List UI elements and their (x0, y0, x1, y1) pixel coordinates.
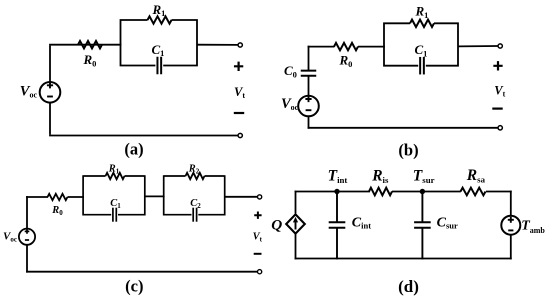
resistor R0 (b) (334, 43, 358, 50)
terminal bottom (c) (258, 270, 262, 274)
terminal top (c) (258, 195, 262, 199)
resistor R0 (a) (78, 41, 102, 48)
resistor R1 (a) (148, 16, 172, 23)
voltage source Voc (b) (298, 96, 319, 117)
wire (b) box to + terminal (458, 45, 498, 47)
capacitor C2 (c) (193, 208, 196, 222)
terminal bottom (a) (238, 133, 242, 137)
resistor Rsa (d) (461, 188, 486, 196)
plus sign (c) (254, 212, 261, 219)
wire (c) bottom rail (26, 271, 257, 273)
svg-text:(b): (b) (398, 140, 418, 159)
svg-text:(d): (d) (398, 277, 419, 296)
current source Q diamond (d) (286, 214, 305, 233)
wire (d) right vertical bottom (510, 235, 512, 260)
resistor R2 (c) (186, 173, 205, 179)
capacitor Cint (d) (336, 192, 338, 223)
wire (d) left vertical top (295, 191, 297, 214)
capacitor C1 (b) (420, 57, 424, 74)
wire (d) R_is to R_sa (392, 191, 461, 193)
resistor R1 (c) (106, 173, 125, 179)
plus sign (b) (493, 61, 502, 70)
voltage source Tamb (d) (501, 216, 520, 235)
node T_int (d) (334, 189, 339, 194)
svg-text:Q: Q (271, 217, 282, 234)
minus sign (a) (234, 112, 244, 114)
plus sign (a) (234, 62, 243, 71)
wire (b) C0 to source (308, 76, 310, 97)
svg-text:(c): (c) (125, 276, 143, 295)
terminal top (b) (498, 44, 502, 48)
wire (c) box1 to box2 (145, 195, 165, 197)
voltage source Voc (a) (40, 82, 61, 103)
capacitor Csur (d) (421, 192, 423, 223)
parallel box frame 1 (c) (83, 175, 145, 215)
capacitor C0 (b) (301, 71, 317, 76)
minus sign (c) (254, 253, 262, 255)
node T_sur (d) (420, 189, 425, 194)
capacitor C1 (c) (113, 208, 116, 222)
voltage source Voc (c) (19, 229, 35, 245)
wire (b) R0 to box (358, 46, 385, 48)
wire (a) bottom rail (49, 135, 238, 137)
wire (d) R_sa to right vertical (486, 191, 512, 193)
terminal top (a) (238, 43, 242, 47)
resistor R1 (b) (410, 20, 434, 27)
svg-text:(a): (a) (124, 139, 143, 158)
terminal bottom (b) (498, 126, 502, 130)
parallel box frame (b) (384, 22, 458, 66)
wire (a) box to + terminal (197, 44, 238, 46)
wire (c) box2 to + terminal (225, 196, 258, 198)
wire (d) bottom rail (295, 258, 512, 260)
capacitor C1 (a) (157, 57, 161, 75)
parallel box frame 2 (c) (164, 175, 225, 215)
wire (b) bottom rail (308, 127, 498, 129)
parallel box frame (a) (121, 19, 198, 66)
minus sign (b) (492, 107, 502, 109)
wire (c) source to top rail (26, 196, 28, 229)
wire (c) R0 to box1 (68, 196, 85, 198)
wire (d) top rail to R_is (295, 191, 370, 193)
resistor Ris (d) (369, 188, 392, 196)
wire (b) top rail left (308, 46, 310, 70)
wire (a) source top to top rail (49, 46, 51, 82)
resistor R0 (c) (48, 194, 68, 200)
